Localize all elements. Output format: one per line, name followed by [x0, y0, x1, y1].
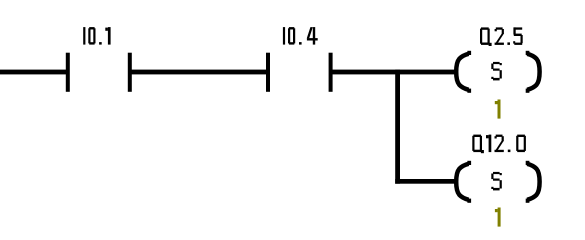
contact I0.1 — [66, 53, 132, 92]
label Q12.0 — [472, 135, 526, 154]
coil Q12.0 operator S (set) — [491, 172, 502, 191]
wire: contact I0.1 to contact I0.4 — [131, 70, 268, 75]
wire: left rail stub to contact I0.1 — [0, 70, 68, 75]
operand value 1 of coil Q12.0 — [495, 208, 501, 227]
coil Q2.5 set coil parentheses — [456, 51, 539, 93]
label I0.4 — [283, 27, 318, 45]
coil Q2.5 operator S (set) — [491, 62, 502, 81]
operand value 1 of coil Q2.5 — [495, 100, 501, 119]
label I0.1 — [83, 27, 110, 45]
label Q2.5 — [480, 27, 523, 46]
contact I0.4 — [266, 53, 333, 92]
wire: contact I0.4 to coil Q2.5 through branch node — [332, 70, 458, 75]
coil Q12.0 set coil parentheses — [456, 161, 539, 203]
wire: branch down-leg to coil Q12.0 — [395, 179, 457, 184]
node: branch junction, vertical wire down to second rung — [395, 70, 400, 184]
